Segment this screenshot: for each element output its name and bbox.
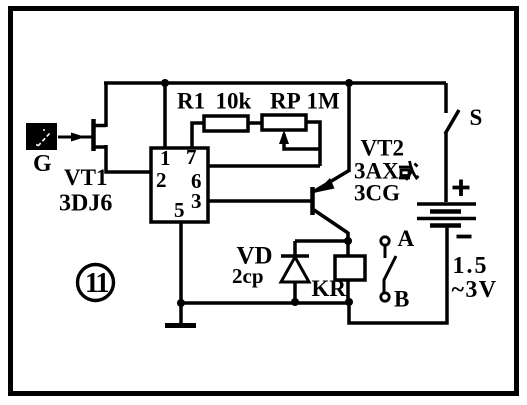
svg-text:S: S [470,105,483,130]
wire RP right lead down [306,122,320,166]
wire pin5 down [179,222,183,303]
svg-text:2cp: 2cp [232,264,264,288]
svg-text:1.5: 1.5 [453,253,489,279]
svg-text:10k: 10k [216,89,252,114]
svg-text:~3V: ~3V [452,277,498,303]
label minus [457,235,472,239]
wire VT1 drain to rail [104,83,108,127]
svg-text:B: B [394,287,409,312]
svg-text:RP: RP [270,89,301,114]
svg-text:KR: KR [312,276,347,301]
resistor R1 [204,116,248,131]
svg-text:5: 5 [174,198,185,222]
node relay-bottom junction [345,298,353,306]
wire VT2 collector down [346,232,350,256]
wire gate lead with arrow [58,133,92,142]
svg-text:2: 2 [156,168,167,192]
IC U1 block [151,148,208,222]
svg-text:R1: R1 [177,89,205,114]
svg-text:11: 11 [85,268,108,299]
transistor Q2 VT2 [313,171,350,234]
wire diode top link [295,239,348,243]
wire bottom to battery [349,227,447,323]
wire top rail [104,81,446,85]
diode VD [281,241,309,302]
terminal A [381,237,389,258]
svg-text:1: 1 [160,146,171,170]
wire pin3 to VT2 base [208,199,311,203]
svg-text:G: G [33,151,52,177]
node rail-emitter junction [345,79,353,87]
battery BT [417,204,476,226]
node pin5-ground junction [177,299,185,307]
potentiometer RP [262,115,306,130]
switch S [445,83,459,202]
wire pin6 line [208,164,320,168]
node collector-diode junction [344,237,352,245]
wire VT1 source to pin2 [106,145,151,172]
ground [165,303,196,326]
sensor G plate [26,123,57,150]
node rail-pin1 junction [161,79,169,87]
relay KR coil [335,256,365,280]
svg-text:A: A [398,226,415,251]
glyph huo (or) [399,161,419,180]
wire pin7 to R1 [192,123,204,148]
svg-text:3: 3 [191,189,202,213]
contact blade [384,256,396,292]
wiper arrow RP [279,130,320,149]
terminal B [381,293,389,301]
svg-text:VT2: VT2 [361,136,404,161]
wire bottom rail [181,301,349,305]
svg-text:3DJ6: 3DJ6 [59,191,112,217]
wire R1 to RP [248,121,262,125]
node diode-bottom junction [291,298,299,306]
wire relay to bottom [346,280,350,302]
label plus [453,180,470,197]
svg-text:VT1: VT1 [64,165,107,190]
wire pin1 to rail [163,83,167,148]
svg-text:7: 7 [186,145,197,169]
transistor VT1 (FET) [94,119,107,151]
node figure number 11 [78,265,114,301]
svg-text:3CG: 3CG [354,181,400,206]
svg-text:1M: 1M [307,89,341,114]
wire VT2 emitter to rail [347,83,351,172]
